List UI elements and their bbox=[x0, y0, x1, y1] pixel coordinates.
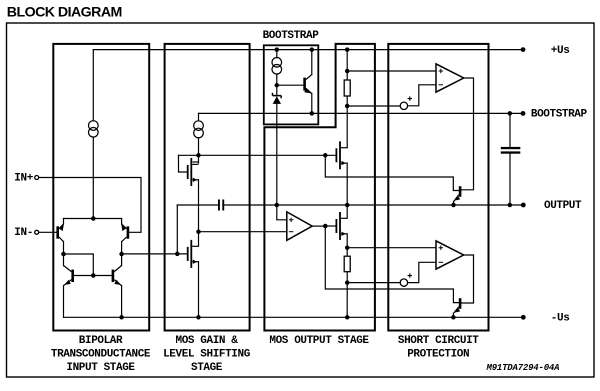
svg-text:STAGE: STAGE bbox=[191, 362, 223, 374]
svg-text:MOS GAIN &: MOS GAIN & bbox=[176, 335, 239, 347]
svg-text:SHORT CIRCUIT: SHORT CIRCUIT bbox=[398, 335, 479, 347]
svg-text:BIPOLAR: BIPOLAR bbox=[79, 335, 123, 347]
svg-text:BOOTSTRAP: BOOTSTRAP bbox=[263, 30, 320, 42]
svg-text:MOS OUTPUT STAGE: MOS OUTPUT STAGE bbox=[269, 335, 369, 347]
svg-text:-Us: -Us bbox=[551, 313, 570, 325]
svg-text:BOOTSTRAP: BOOTSTRAP bbox=[531, 109, 588, 121]
svg-text:IN-: IN- bbox=[14, 227, 33, 239]
svg-text:PROTECTION: PROTECTION bbox=[407, 348, 469, 360]
svg-text:M91TDA7294-04A: M91TDA7294-04A bbox=[486, 363, 560, 373]
svg-text:IN+: IN+ bbox=[14, 173, 33, 185]
svg-text:TRANSCONDUCTANCE: TRANSCONDUCTANCE bbox=[51, 348, 151, 360]
svg-text:INPUT STAGE: INPUT STAGE bbox=[66, 362, 135, 374]
svg-text:+Us: +Us bbox=[551, 45, 570, 57]
svg-text:LEVEL SHIFTING: LEVEL SHIFTING bbox=[163, 348, 251, 360]
svg-text:BLOCK DIAGRAM: BLOCK DIAGRAM bbox=[7, 4, 122, 20]
svg-text:OUTPUT: OUTPUT bbox=[544, 200, 582, 212]
